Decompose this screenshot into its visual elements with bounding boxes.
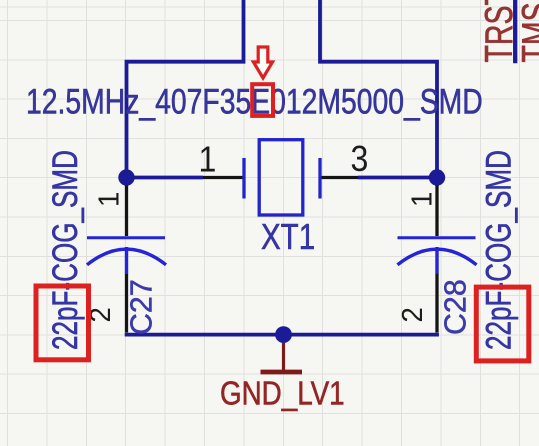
svg-text:1: 1 bbox=[199, 140, 217, 180]
svg-text:C27: C27 bbox=[123, 279, 158, 335]
svg-text:3: 3 bbox=[351, 139, 369, 179]
svg-text:TMS: TMS bbox=[515, 2, 539, 62]
svg-text:C28: C28 bbox=[437, 279, 472, 335]
svg-text:1: 1 bbox=[92, 192, 125, 207]
svg-text:22pF-COG_SMD: 22pF-COG_SMD bbox=[479, 150, 519, 350]
svg-text:1: 1 bbox=[405, 192, 438, 207]
svg-text:GND_LV1: GND_LV1 bbox=[220, 374, 345, 412]
svg-text:2: 2 bbox=[395, 307, 428, 322]
svg-text:XT1: XT1 bbox=[261, 216, 315, 256]
svg-text:22pF-COG_SMD: 22pF-COG_SMD bbox=[45, 150, 85, 350]
